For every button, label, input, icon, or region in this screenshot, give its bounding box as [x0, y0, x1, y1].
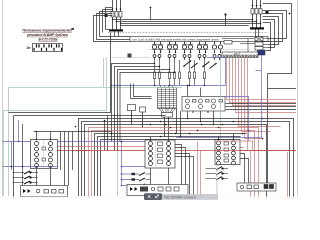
current transformer TA5 — [212, 42, 222, 54]
label Zp — [27, 46, 31, 50]
current transformer TA3 — [182, 42, 193, 54]
red control wire bottom — [58, 150, 297, 152]
relay A2 inner dashed — [155, 141, 157, 167]
diode assembly VD1 — [182, 97, 225, 112]
blue wire resistor bus — [110, 58, 226, 86]
node T2 junction — [224, 13, 226, 25]
secondary winding W2 — [168, 55, 176, 61]
blue stub right — [256, 70, 262, 72]
riser x104 — [104, 121, 106, 151]
dashed link line row — [148, 49, 250, 51]
relay A3 coils column 1 — [217, 141, 221, 165]
relay A3 right leads — [240, 154, 249, 184]
svg-text:Положение переключателей: Положение переключателей — [22, 28, 72, 32]
resistor R7 — [194, 60, 196, 86]
toolbar icon close — [148, 195, 150, 197]
blue junction dots — [18, 118, 264, 187]
marker tick M1 — [72, 28, 75, 30]
terminal strip X1 text — [132, 37, 219, 41]
wire bus right black row — [226, 104, 297, 110]
green wire drop right — [220, 58, 222, 140]
auxiliary box A1a — [21, 186, 68, 197]
DIP switch SA1 — [33, 44, 63, 52]
riser bundle mid-bottom — [177, 109, 181, 137]
horizontal 4-wire bus — [113, 20, 261, 26]
wire links W-row to left risers — [112, 64, 175, 151]
terminal block XT1 grid — [158, 86, 177, 109]
junction dots F2 — [252, 5, 262, 25]
secondary winding W1 — [153, 55, 161, 61]
relay block A2 box — [145, 140, 175, 168]
relay top feeders — [151, 134, 234, 141]
marker square K1 — [105, 14, 108, 17]
toolbar label strip — [162, 194, 218, 200]
wire bus black 5 — [98, 137, 241, 197]
blue wire XT drop — [261, 55, 263, 138]
contact SQ4 — [132, 172, 151, 175]
svg-text:гллт 1саб:та 6кВ 0,4кВ лев-пра: гллт 1саб:та 6кВ 0,4кВ лев-прав ячейка №… — [132, 37, 219, 41]
wire bus red 1 — [89, 128, 259, 200]
svg-text:Зп: Зп — [27, 46, 31, 50]
resistor R8 — [204, 60, 206, 86]
blue wire through A1 — [3, 166, 58, 168]
relay A1 bottom leads — [37, 169, 51, 186]
fuse F1 bodies — [111, 12, 122, 18]
switch arrow Q1 — [184, 61, 191, 66]
contact SQ9 — [206, 177, 229, 181]
current transformer TA2 — [167, 42, 178, 54]
switch arrow Q2 — [191, 63, 198, 68]
junction dots F1 — [112, 8, 122, 24]
contact SQ7 — [206, 167, 229, 171]
green wire loop — [4, 58, 183, 197]
contact SQ5 — [132, 178, 151, 181]
green wire drop mid — [118, 151, 161, 197]
relay A2 right leads — [175, 145, 194, 200]
relay KL1 stack — [222, 37, 268, 52]
resistor R1 — [154, 60, 156, 86]
resistor R2 — [159, 60, 161, 86]
VD1 leads — [188, 86, 214, 125]
svg-text:ряд 9: ряд 9 — [234, 54, 240, 56]
wire bundle top corners — [94, 8, 131, 42]
contact SQ1 — [13, 171, 39, 174]
red wire A3 top — [215, 141, 253, 151]
resistor R6 — [189, 60, 191, 86]
resistor R5 — [179, 60, 181, 86]
contact SQ3 — [13, 181, 39, 184]
current transformer TA4 — [197, 42, 208, 54]
W-row link dots — [154, 63, 175, 73]
blue wire long bus — [3, 141, 153, 143]
arrow junction dots — [183, 60, 217, 67]
resistor R4 — [174, 60, 176, 86]
wire bus black 2 — [82, 122, 290, 200]
auxiliary box A3a — [237, 183, 276, 191]
blue wire mid riser — [122, 142, 146, 186]
relay A1 coils column 2 — [49, 142, 53, 168]
left block feeders — [23, 124, 113, 186]
blue wire corner right — [226, 97, 249, 141]
leads below B2 — [256, 30, 259, 37]
red link left block — [58, 146, 153, 148]
resistor R3 — [169, 60, 171, 86]
relay A1 inner contacts — [42, 147, 46, 161]
terminal strip X2 — [222, 52, 258, 58]
busbar bar B1 — [109, 29, 123, 31]
auxiliary contact boxes under XT1 — [128, 105, 146, 128]
page left border — [2, 0, 4, 200]
VD1 lead dots — [187, 85, 215, 125]
terminal strip X2 text — [234, 54, 240, 56]
wire bus black 1 — [79, 119, 294, 200]
feeder dots relay tops — [36, 139, 235, 141]
red wire bundle risers — [227, 58, 297, 151]
marker component M2 — [128, 54, 132, 58]
green wire below A3 — [216, 165, 218, 197]
blue wire A3 top — [176, 137, 262, 139]
busbar bar B2 — [250, 27, 264, 29]
toolbar icon expand — [156, 195, 159, 198]
relay A2 red leads — [198, 142, 201, 200]
toolbar overlay dark — [144, 193, 162, 200]
heading note text — [22, 28, 72, 41]
TA junction dots row — [154, 52, 206, 53]
wire bus black 4 — [95, 134, 247, 197]
relay block A3 box — [215, 140, 240, 165]
node T1 junction — [150, 7, 152, 20]
blue dots VD1 — [192, 111, 209, 113]
red riser pair right block — [250, 151, 252, 200]
switch arrow Q3 — [203, 62, 210, 67]
red wire over A3 — [215, 150, 296, 152]
relay A2 coils column 2 — [167, 142, 171, 166]
marker square K2 — [266, 11, 269, 14]
page bottom border — [0, 197, 300, 199]
svg-text:В-С72-У5/1Б: В-С72-У5/1Б — [38, 37, 58, 41]
svg-text:режимов В-ВМР 0уЮмм: режимов В-ВМР 0уЮмм — [26, 33, 68, 37]
riser x107 — [107, 116, 109, 151]
relay A3 inner contacts — [224, 142, 229, 162]
blue wire left riser — [12, 120, 19, 170]
current transformer TA1 — [152, 42, 163, 54]
fuse group F1 risers — [113, 0, 121, 30]
secondary winding W4 — [198, 55, 206, 61]
junction dots resistor bus — [154, 85, 205, 86]
power supply unit G1 — [258, 50, 266, 55]
dashed separation line — [108, 32, 268, 34]
blue dots A1 — [11, 166, 52, 168]
red link mid block — [215, 147, 244, 149]
wire bus black 6 — [101, 140, 235, 197]
relay A1 coils column 1 — [35, 142, 39, 168]
dashed row 2 — [113, 57, 150, 59]
page right border — [297, 0, 299, 200]
bus junction dots — [36, 120, 264, 143]
secondary winding W5 — [213, 55, 221, 61]
contact SQ8 — [206, 172, 229, 176]
terminal strip X1 — [130, 37, 268, 42]
wire bus red 2 — [92, 131, 255, 200]
relay A1 inner dashed — [43, 141, 45, 168]
fuse F2 bodies — [251, 9, 262, 15]
wire bus black 3 — [85, 125, 267, 200]
XT1 funnel box — [159, 109, 176, 137]
relay A3 coils column 2 — [232, 141, 236, 165]
relay A2 coils column 1 — [149, 142, 153, 166]
contact SQ2 — [13, 176, 39, 179]
red wire top stub — [75, 150, 90, 152]
wire bundle right U-loops — [263, 4, 297, 184]
auxiliary box A2a — [127, 185, 188, 196]
switch arrow Q4 — [210, 64, 217, 69]
frame corner left — [9, 33, 166, 200]
fade edge bottom — [0, 197, 300, 201]
relay A2 bottom leads — [151, 168, 169, 185]
nested corners into XT1 — [131, 84, 152, 99]
fuse group F2 risers — [253, 0, 261, 28]
dot top-right loop — [289, 13, 291, 15]
contact SQ6 — [132, 184, 151, 187]
relay A2 inner contacts — [158, 142, 163, 164]
red riser bottom right — [287, 152, 289, 199]
svg-text:2кВ 3500кВт схема-5: 2кВ 3500кВт схема-5 — [164, 195, 196, 199]
relay block A1 box — [31, 140, 58, 169]
secondary winding W3 — [183, 55, 191, 61]
leads below B1 — [115, 32, 119, 37]
